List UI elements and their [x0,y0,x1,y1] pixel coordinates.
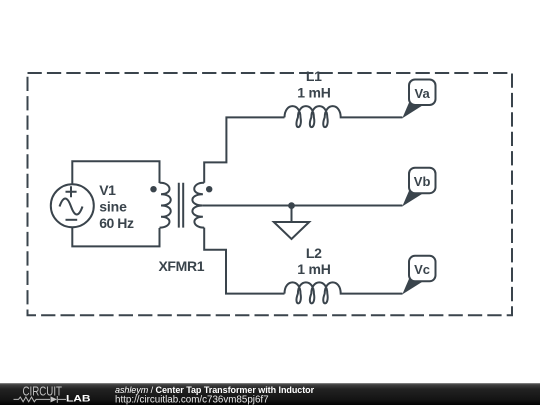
node flag Va [402,80,435,119]
wire L2 to Vc [345,293,403,295]
V1 minus sign [66,219,78,221]
transformer core lines [179,183,183,228]
voltage source V1 circle [51,184,94,227]
dot secondary winding [206,186,212,192]
svg-text:LAB: LAB [66,394,91,404]
svg-text:1 mH: 1 mH [297,261,331,277]
node flag Vc [402,256,435,295]
logo wire + resistor + diode glyph [14,396,67,403]
wire L1 to Va [345,116,403,118]
svg-text:L1: L1 [306,68,322,84]
svg-text:1 mH: 1 mH [297,84,331,100]
ground stub [291,206,293,222]
transformer XFMR1 right winding [192,183,204,228]
svg-text:V1: V1 [99,182,116,198]
wire secondary bottom jog to L2 [204,228,284,294]
wire primary bottom [72,227,159,246]
svg-text:Va: Va [415,86,431,101]
svg-text:Vb: Vb [414,174,431,189]
svg-text:http://circuitlab.com/c736vm85: http://circuitlab.com/c736vm85pj6f7 [115,395,269,405]
footer bar [0,383,540,405]
svg-text:sine: sine [99,199,127,215]
dashed bounding box [28,73,513,315]
ground triangle [274,222,309,239]
node flag Vb [402,168,435,207]
wire primary top [72,161,159,184]
V1 plus sign [66,186,77,197]
svg-text:L2: L2 [306,245,322,261]
svg-text:Vc: Vc [414,262,430,277]
svg-text:CIRCUIT: CIRCUIT [23,384,63,398]
transformer XFMR1 left winding [160,183,171,228]
V1 sine glyph [60,199,83,215]
wire secondary center tap to Vb [203,205,403,207]
svg-text:60 Hz: 60 Hz [99,215,134,231]
wire secondary top jog to L1 [204,117,284,182]
svg-text:XFMR1: XFMR1 [158,258,204,274]
inductor L2 coil [285,282,345,303]
inductor L1 coil [285,106,345,127]
svg-text:ashleym / Center Tap Transform: ashleym / Center Tap Transformer with In… [115,385,315,395]
junction dot at ground [288,202,295,209]
dot primary winding [150,186,156,192]
